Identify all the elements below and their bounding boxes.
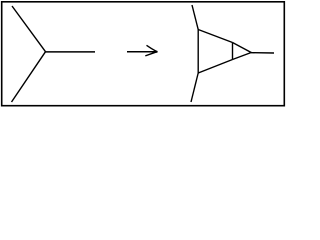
- wire: triangle top edge: [198, 30, 232, 43]
- wire: triangle upper-left external leg: [192, 5, 198, 30]
- wire: triangle lower-left external leg: [191, 73, 198, 102]
- wire: triangle right external leg: [251, 52, 274, 54]
- border frame (decorative): [2, 2, 285, 106]
- wire: star right leg: [46, 51, 96, 53]
- node D: inner triangle apex: [250, 52, 252, 54]
- node A: star junction: [45, 51, 46, 52]
- wire: triangle left side: [197, 30, 199, 74]
- wire: inner triangle left side: [232, 43, 234, 60]
- wire: inner triangle bottom side: [233, 53, 252, 60]
- arrow: transformation arrow shaft: [127, 51, 156, 53]
- wire: inner triangle top side: [233, 43, 252, 53]
- arrow: upper barb: [147, 45, 157, 51]
- wire: star lower-left leg: [12, 52, 46, 102]
- node C: triangle bottom-left vertex: [198, 72, 199, 73]
- arrow: tip: [156, 51, 158, 53]
- arrow: lower barb: [145, 52, 157, 56]
- wire: triangle bottom edge: [198, 60, 232, 74]
- node B: triangle top-left vertex: [198, 29, 199, 30]
- wire: star upper-left leg: [12, 6, 46, 52]
